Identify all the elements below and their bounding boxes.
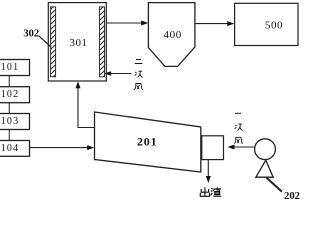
svg-text:400: 400 (164, 29, 182, 41)
wire 101-102 (8, 76, 10, 87)
box 103 (0, 114, 30, 130)
渣 (211, 187, 222, 196)
svg-text:301: 301 (69, 37, 87, 49)
svg-text:102: 102 (1, 89, 20, 100)
box 104 (0, 141, 30, 157)
leader line 302 to lining (39, 36, 51, 47)
wire 102-103 (8, 103, 10, 114)
text 一次风 (primary air, vertical) (234, 113, 243, 143)
wire 104 to kiln 201 with arrow (30, 147, 93, 149)
chamber 301 outer box (48, 3, 106, 81)
svg-text:202: 202 (284, 191, 300, 200)
secondary air arrow into 301 (107, 73, 132, 75)
slag discharge arrow down (207, 160, 209, 181)
primary air arrow fan to discharge box (230, 146, 255, 148)
kiln 201 body (95, 112, 201, 172)
wire 301 to 400 with arrow (106, 22, 146, 24)
svg-text:103: 103 (1, 116, 20, 127)
风 (234, 137, 243, 143)
次 (235, 124, 243, 131)
svg-text:500: 500 (265, 19, 283, 31)
box 101 (0, 60, 30, 76)
fan circle 202 (255, 139, 276, 160)
fan triangle base (256, 160, 273, 177)
一 (235, 112, 241, 114)
box 102 (0, 87, 30, 103)
svg-text:302: 302 (23, 28, 39, 39)
leader line to label 202 (266, 178, 282, 192)
wire 400 to 500 with arrow (195, 23, 232, 25)
svg-text:201: 201 (137, 134, 157, 148)
discharge box at kiln end (202, 136, 224, 160)
出 (200, 187, 209, 196)
svg-text:101: 101 (1, 62, 20, 73)
svg-text:104: 104 (1, 143, 20, 154)
refractory lining right (hatched) (100, 7, 105, 77)
wire kiln 201 up to 301 with arrow (78, 84, 95, 128)
text 二次风 (secondary air, vertical) (134, 60, 143, 90)
二 (135, 60, 143, 64)
box 500 (235, 3, 298, 45)
风 (134, 84, 143, 90)
refractory lining left (hatched) (51, 7, 56, 77)
text 出渣 (slag out) (200, 187, 221, 196)
hopper 400 (148, 3, 195, 67)
wire 103-104 (8, 130, 10, 141)
次 (135, 71, 143, 77)
